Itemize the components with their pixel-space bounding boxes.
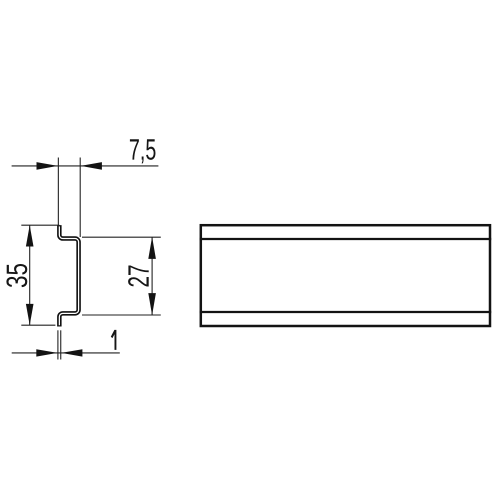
label bbox=[111, 330, 117, 350]
outline bbox=[201, 225, 490, 326]
left arrow bbox=[36, 349, 57, 356]
dimension 27 (middle right of profile) bbox=[82, 237, 161, 315]
bottom extension line bbox=[21, 324, 55, 326]
left arrow bbox=[37, 162, 58, 170]
label bbox=[130, 139, 156, 163]
dim line bbox=[12, 352, 120, 354]
right arrow bbox=[81, 162, 102, 170]
rail side view (right) bbox=[200, 225, 492, 326]
label bbox=[6, 264, 27, 287]
top arrow bbox=[148, 237, 156, 259]
lower edge line bbox=[200, 311, 492, 313]
top extension line bbox=[21, 224, 59, 226]
extension line right face bbox=[60, 330, 62, 359]
label bbox=[128, 266, 149, 287]
dimension 1 (bottom, material thickness) bbox=[12, 330, 120, 360]
bottom arrow bbox=[148, 293, 156, 315]
dim line bbox=[12, 165, 159, 167]
dimension 7,5 (top) bbox=[12, 139, 159, 237]
extension line at web outer face bbox=[79, 158, 81, 238]
right arrow bbox=[61, 349, 82, 356]
top extension line bbox=[82, 236, 161, 238]
dimension 35 (left) bbox=[6, 225, 59, 325]
DIN rail cross-section profile (left view) bbox=[59, 225, 78, 326]
extension line left face bbox=[57, 330, 59, 359]
extension line at lip outer face bbox=[57, 158, 59, 226]
bottom arrow bbox=[26, 304, 34, 325]
top arrow bbox=[26, 225, 34, 246]
upper edge line bbox=[200, 238, 492, 240]
dim line bbox=[151, 237, 153, 314]
dim line bbox=[29, 225, 31, 325]
bottom extension line bbox=[82, 314, 161, 316]
